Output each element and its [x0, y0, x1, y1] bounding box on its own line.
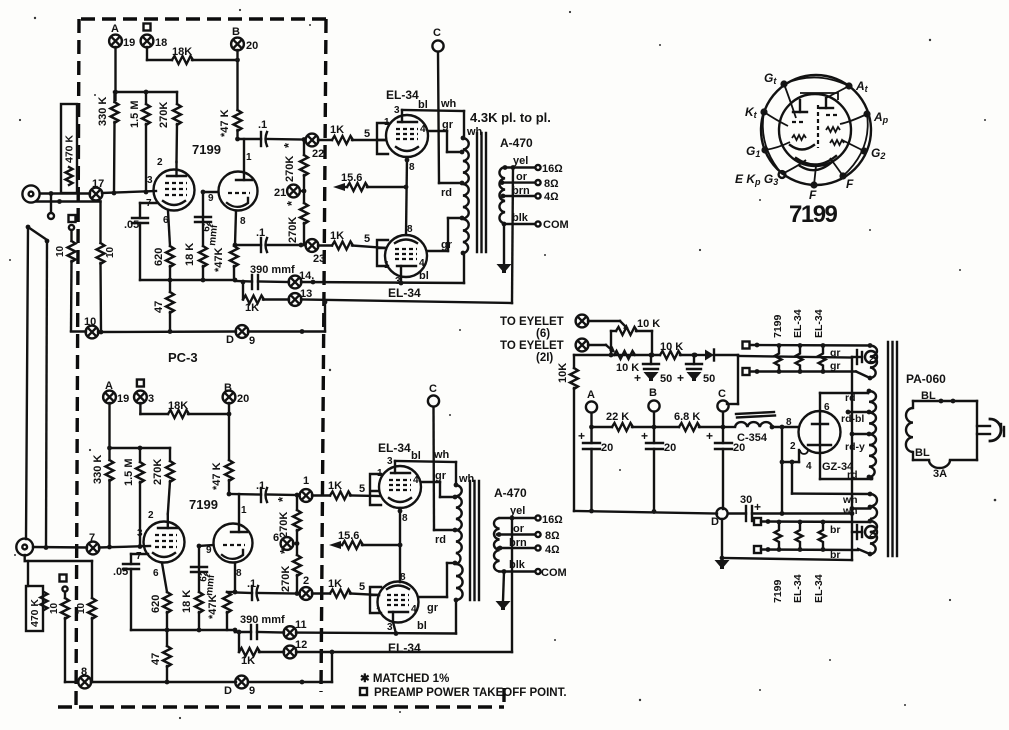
feedback wire 16ohm down bottom	[511, 518, 513, 652]
svg-text:12: 12	[295, 639, 307, 651]
svg-text:EL-34: EL-34	[792, 574, 804, 603]
resistor 1K upper grid stopper	[318, 124, 386, 144]
svg-text:17: 17	[92, 178, 104, 190]
resistor 18K divider bottom	[181, 544, 213, 630]
eyelet 18 with takeoff square	[141, 24, 168, 50]
screen wire gr to tap bottom	[421, 470, 455, 497]
svg-text:270K: 270K	[278, 512, 290, 538]
svg-text:6.8 K: 6.8 K	[674, 411, 700, 423]
svg-text:.05: .05	[113, 566, 128, 578]
svg-text:wh: wh	[458, 473, 475, 485]
svg-text:1K: 1K	[241, 655, 255, 667]
resistor *47K bottom	[211, 460, 233, 494]
tube 7199 pentode section bottom	[136, 510, 185, 579]
wire jack lower to 10 ohm (2nd)	[36, 200, 101, 202]
pilot lamp top	[852, 350, 877, 364]
label PREAMP POWER TAKEOFF POINT	[360, 687, 567, 699]
resistor 1K lower bottom	[312, 578, 379, 598]
winding 5V wh	[790, 460, 877, 519]
svg-text:1K: 1K	[328, 480, 342, 492]
eyelet 22	[302, 134, 325, 160]
transformer A-470 core bottom	[470, 481, 479, 600]
svg-text:2: 2	[157, 157, 163, 168]
svg-text:4Ω: 4Ω	[544, 191, 559, 203]
label TO EYELET (6)	[500, 316, 564, 340]
takeoff square top1	[743, 342, 871, 349]
tube 7199 triode section V1B	[208, 139, 258, 227]
resistor 10K series	[660, 341, 697, 359]
wire eyelet21 to pot2 wiper	[588, 345, 615, 352]
resistor 470K box bottom	[26, 561, 48, 631]
svg-text:330 K: 330 K	[97, 97, 109, 126]
svg-text:2: 2	[148, 510, 154, 521]
svg-text:PREAMP POWER TAKEOFF POINT.: PREAMP POWER TAKEOFF POINT.	[374, 687, 567, 699]
eyelet 8	[78, 666, 91, 688]
grid bracket upper EL34	[377, 123, 388, 154]
cap .1 upper coupling bottom	[227, 480, 297, 502]
svg-text:blk: blk	[512, 212, 529, 224]
gr labels top	[830, 347, 841, 372]
svg-text:yel: yel	[513, 155, 528, 167]
secondary tap yel 16 ohm bottom	[500, 505, 564, 526]
cathode bus wire bottom	[131, 628, 237, 633]
cap 390mmf bottom	[235, 614, 285, 639]
svg-text:7199: 7199	[189, 497, 218, 512]
svg-text:gr: gr	[427, 602, 439, 614]
cap 30uF	[728, 494, 854, 521]
svg-text:47: 47	[150, 653, 162, 665]
eyelet 2	[295, 575, 313, 600]
wire eyelet11 to EL34 plate line bottom	[296, 631, 456, 636]
dashed PC-3 board outline	[58, 19, 504, 707]
svg-text:9: 9	[206, 545, 212, 556]
svg-text:10: 10	[76, 602, 87, 614]
svg-text:50: 50	[660, 373, 672, 385]
wire eyelet10 to eyelet D9	[98, 329, 236, 334]
pin F bottom	[809, 181, 818, 202]
diode rectifier bias	[695, 350, 738, 361]
svg-text:20: 20	[664, 442, 676, 454]
svg-text:EL-34: EL-34	[813, 309, 825, 338]
svg-text:10 K: 10 K	[660, 341, 683, 353]
eyelet 11	[284, 619, 307, 639]
secondary tap or 8 ohm bottom	[497, 523, 561, 542]
resistor 270K bottom	[152, 448, 174, 514]
resistor 1.5M bottom	[123, 448, 144, 547]
plate wire bl lower to transformer	[399, 253, 464, 285]
internal pentode elements	[790, 100, 814, 150]
resistor 47	[153, 280, 174, 332]
PA-060 primary winding	[906, 408, 913, 452]
svg-text:330 K: 330 K	[92, 455, 104, 484]
cap .1 lower coupling	[235, 227, 304, 252]
svg-text:3: 3	[147, 175, 153, 186]
wire C to primary center tap rd	[439, 183, 462, 199]
svg-text:1.5 M: 1.5 M	[129, 100, 141, 128]
transformer A-470 primary winding bottom	[453, 483, 463, 603]
cap +50 second	[677, 353, 715, 385]
resistor 270K* upper	[281, 140, 308, 192]
potentiometer 10K upper	[611, 318, 660, 355]
internal connecting wires	[763, 77, 868, 185]
svg-text:+: +	[754, 500, 761, 514]
svg-text:3: 3	[137, 528, 143, 539]
resistor 1K lower grid stopper	[318, 230, 386, 250]
svg-text:3: 3	[387, 622, 393, 633]
svg-text:8: 8	[81, 666, 87, 678]
wire eyelet19 down	[114, 47, 116, 100]
svg-text:.1: .1	[247, 578, 256, 590]
eyelet 10	[84, 316, 98, 338]
svg-text:1: 1	[376, 606, 382, 617]
preamp takeoff square bottom + 10 ohm R	[49, 575, 78, 683]
wire eyelet8 to D9	[91, 681, 236, 683]
terminal C psu	[717, 388, 728, 427]
svg-text:bl: bl	[417, 620, 427, 632]
svg-text:15.6: 15.6	[341, 172, 362, 184]
tube 7199 pentode section V1A	[146, 157, 195, 226]
heater labels bottom	[772, 574, 825, 603]
svg-text:C-354: C-354	[737, 432, 768, 444]
svg-text:D: D	[226, 334, 234, 346]
wire eyelet19b down	[108, 403, 110, 460]
wire eyelet20b down	[228, 403, 230, 460]
svg-text:A: A	[111, 23, 119, 35]
svg-text:gr: gr	[435, 470, 447, 482]
svg-text:270K: 270K	[287, 217, 299, 243]
svg-text:+: +	[578, 429, 585, 443]
secondary tap yel 16 ohm	[505, 155, 563, 175]
ground secondary top	[497, 224, 512, 273]
cathode bus wire	[140, 278, 237, 283]
wire diode to terminal C	[727, 355, 738, 404]
resistor 1.5M	[129, 92, 150, 192]
winding 6.3V top	[856, 343, 877, 380]
resistor 620 bottom	[150, 563, 171, 630]
switch blade	[28, 227, 47, 240]
takeoff square bot2	[754, 546, 858, 553]
takeoff square top2	[743, 368, 857, 375]
ground bus to lamp vertical	[722, 357, 852, 560]
internal triode elements	[818, 98, 844, 148]
svg-text:gr: gr	[442, 119, 454, 131]
cap .1 top coupling	[258, 119, 304, 146]
svg-text:EL-34: EL-34	[813, 574, 825, 603]
svg-text:7: 7	[89, 532, 95, 544]
tube EL-34 upper V2	[384, 105, 428, 173]
resistor 10 ohm (2nd) bottom	[76, 561, 96, 682]
svg-text:TO EYELET: TO EYELET	[500, 316, 564, 328]
svg-text:bl: bl	[419, 270, 429, 282]
svg-text:5: 5	[359, 483, 365, 495]
svg-text:*47 K: *47 K	[211, 462, 223, 490]
resistor 1K feedback	[241, 280, 289, 314]
svg-text:4.3K pl. to pl.: 4.3K pl. to pl.	[470, 110, 551, 125]
grid bracket upper EL34 bottom	[370, 474, 381, 505]
socket outer circle	[761, 75, 871, 185]
transformer A-470 secondary winding	[499, 165, 507, 226]
grid bracket lower EL34 bottom	[370, 587, 381, 613]
svg-text:yel: yel	[510, 505, 525, 517]
screen wire gr lower bottom	[419, 563, 455, 614]
wire eyelet13 to feedback junction	[301, 300, 512, 305]
svg-text:.1: .1	[258, 119, 267, 131]
resistor 330K	[97, 92, 119, 193]
eyelet 23	[299, 239, 326, 265]
wire eyelet12 to feedback vertical bottom	[296, 650, 512, 655]
svg-text:6: 6	[153, 568, 159, 579]
svg-text:bl: bl	[411, 450, 421, 462]
grid bus wire bottom	[107, 446, 170, 451]
svg-text:gr: gr	[830, 360, 841, 372]
svg-text:11: 11	[295, 619, 307, 631]
plate node wire to cap .1 top	[235, 137, 261, 142]
svg-text:10K: 10K	[557, 363, 569, 383]
svg-text:BL: BL	[921, 390, 936, 402]
AC plug	[977, 401, 1004, 460]
svg-text:9: 9	[249, 685, 255, 697]
svg-text:7199: 7199	[772, 314, 784, 338]
tube 7199 triode section bottom	[206, 494, 253, 579]
resistor 18K top	[147, 46, 238, 64]
svg-text:8: 8	[400, 572, 406, 583]
svg-text:10 K: 10 K	[637, 318, 660, 330]
svg-text:18 K: 18 K	[181, 590, 193, 613]
svg-text:6: 6	[273, 532, 279, 544]
svg-text:7199: 7199	[789, 201, 838, 228]
terminal D	[711, 508, 728, 528]
svg-text:10: 10	[49, 602, 60, 614]
wire eyelet20 down to node B	[236, 50, 238, 110]
screen wire gr to tap	[428, 119, 462, 152]
secondary tap or 8 ohm	[502, 171, 559, 190]
svg-text:EL-34: EL-34	[792, 309, 804, 338]
resistor 18K divider	[184, 192, 207, 280]
resistor 10K bleeder vertical	[557, 355, 578, 511]
wire D9 to feedback corner bottom	[165, 652, 332, 684]
svg-text:23: 23	[313, 253, 325, 265]
pin G1	[746, 144, 769, 159]
svg-text:8: 8	[786, 417, 792, 428]
preamp takeoff square + 10 ohm R	[55, 215, 76, 331]
svg-text:br: br	[830, 524, 841, 536]
svg-text:8: 8	[407, 224, 413, 235]
resistor *47K plate load triode	[219, 109, 242, 139]
pin Ap	[863, 110, 888, 125]
screen wire gr lower to tap	[427, 218, 462, 251]
svg-text:20: 20	[237, 393, 249, 405]
cap .1 lower coupling bottom	[235, 578, 297, 600]
pin E Kp G3	[735, 171, 785, 187]
svg-text:4: 4	[420, 124, 426, 135]
ground wire D	[715, 519, 730, 569]
resistor 6.8K	[654, 411, 725, 431]
resistor 10 ohm (2nd)	[97, 202, 117, 332]
primary top wire BL with switch	[913, 390, 977, 408]
wire D9 to feedback corner	[248, 302, 325, 334]
pin Gt	[764, 71, 788, 88]
resistor 620 cathode	[153, 211, 174, 280]
wire triode grid	[201, 190, 218, 195]
svg-text:+: +	[641, 429, 648, 443]
takeoff square bot1	[754, 518, 870, 525]
grid bus wire	[114, 91, 177, 93]
resistor 270K plate load	[158, 92, 181, 162]
heater resistors bottom	[775, 520, 782, 552]
svg-text:1: 1	[246, 152, 252, 163]
svg-text:C: C	[433, 27, 441, 39]
svg-text:5: 5	[359, 581, 365, 593]
svg-text:620: 620	[150, 595, 162, 613]
svg-text:21: 21	[274, 187, 286, 199]
secondary tap blk COM bottom	[500, 559, 567, 579]
svg-text:F: F	[846, 177, 854, 191]
svg-text:.1: .1	[256, 480, 265, 492]
wire GZ34 pin2 to 30uF	[780, 425, 799, 516]
svg-text:10: 10	[55, 245, 66, 257]
svg-text:13: 13	[300, 288, 312, 300]
svg-text:3: 3	[148, 393, 154, 405]
cap .05 bottom	[113, 554, 148, 630]
eyelet 13	[289, 288, 313, 306]
svg-text:7199: 7199	[772, 579, 784, 603]
svg-text:EL-34: EL-34	[378, 441, 411, 455]
svg-text:mmf: mmf	[207, 223, 220, 246]
svg-text:1: 1	[241, 505, 247, 516]
svg-text:9: 9	[208, 193, 214, 204]
svg-text:270K: 270K	[284, 156, 296, 182]
resistor 18K bottom channel	[140, 400, 231, 418]
svg-text:PA-060: PA-060	[906, 372, 946, 386]
eyelet 21	[274, 185, 306, 199]
svg-text:3: 3	[387, 456, 393, 467]
svg-text:390 mmf: 390 mmf	[250, 264, 295, 276]
svg-text:A: A	[587, 389, 595, 401]
cap 20uF C	[706, 427, 745, 509]
svg-text:+: +	[706, 429, 713, 443]
svg-text:18K: 18K	[168, 400, 188, 412]
svg-text:*47 K: *47 K	[219, 109, 231, 137]
svg-text:15.6: 15.6	[338, 530, 359, 542]
svg-text:7: 7	[136, 551, 142, 562]
choke C-354	[723, 412, 798, 444]
svg-text:4Ω: 4Ω	[545, 544, 560, 556]
eyelet B20	[231, 26, 258, 52]
svg-text:5: 5	[364, 233, 370, 245]
svg-text:rd-y: rd-y	[845, 441, 865, 453]
eyelet 1	[295, 475, 313, 502]
svg-text:.05: .05	[124, 219, 139, 231]
svg-text:3A: 3A	[933, 468, 947, 480]
cap .05 cathode bypass	[124, 203, 157, 280]
svg-text:19: 19	[117, 393, 129, 405]
svg-text:16Ω: 16Ω	[542, 514, 563, 526]
resistor 15.6 feedback with arrow	[333, 172, 405, 191]
svg-text:*47K: *47K	[207, 594, 219, 619]
svg-text:wh: wh	[466, 126, 483, 138]
svg-text:18 K: 18 K	[184, 243, 196, 266]
svg-text:8Ω: 8Ω	[545, 530, 560, 542]
node dots on input line	[112, 191, 117, 196]
eyelet B20 bottom	[223, 382, 250, 405]
eyelet 17	[90, 178, 105, 200]
svg-text:wh: wh	[842, 505, 858, 517]
B+ bus wire	[589, 425, 612, 430]
terminal C bottom	[428, 383, 439, 530]
svg-text:EL-34: EL-34	[388, 641, 421, 655]
wire bias bus to pilot lamp	[738, 356, 852, 358]
pin G2	[860, 146, 885, 161]
cap 20uF B	[641, 427, 676, 511]
svg-text:rd: rd	[845, 392, 856, 404]
winding 6.3V bottom	[858, 519, 877, 557]
svg-text:+: +	[634, 371, 641, 385]
svg-text:18K: 18K	[172, 46, 192, 58]
svg-text:4: 4	[419, 258, 425, 269]
secondary tap brn 4 ohm	[503, 185, 559, 203]
svg-text:4: 4	[411, 604, 417, 615]
svg-text:22: 22	[312, 148, 324, 160]
svg-text:16Ω: 16Ω	[542, 163, 563, 175]
resistor 330K bottom	[92, 455, 114, 547]
eyelet 12	[284, 639, 308, 658]
svg-text:19: 19	[123, 37, 135, 49]
pin Kt	[745, 105, 768, 120]
svg-text:mmf: mmf	[204, 573, 217, 596]
svg-text:1K: 1K	[330, 230, 344, 242]
svg-text:✱ MATCHED 1%: ✱ MATCHED 1%	[360, 673, 449, 685]
cap 62mmf bottom	[191, 567, 217, 596]
resistor 47 bottom	[150, 630, 171, 682]
eyelet D9	[226, 325, 255, 347]
svg-text:1.5 M: 1.5 M	[123, 458, 135, 486]
svg-text:6: 6	[824, 402, 830, 413]
svg-text:3: 3	[394, 105, 400, 116]
svg-text:5: 5	[364, 128, 370, 140]
label TO EYELET (21)	[500, 340, 564, 364]
svg-text:50: 50	[703, 373, 715, 385]
input jack J2	[16, 539, 33, 556]
wire eyelet7 to pentode grid	[99, 544, 150, 549]
svg-text:20: 20	[246, 40, 258, 52]
secondary tap blk COM	[504, 212, 569, 231]
bias bus wire	[574, 353, 660, 358]
pin F right	[839, 172, 854, 191]
svg-text:PC-3: PC-3	[168, 350, 198, 365]
svg-text:8: 8	[236, 568, 242, 579]
svg-text:7199: 7199	[192, 142, 221, 157]
svg-text:1: 1	[303, 475, 309, 487]
svg-text:2: 2	[303, 575, 309, 587]
svg-text:rd: rd	[435, 534, 446, 546]
tube EL-34 upper bottom channel	[377, 456, 421, 524]
cap +50 first	[634, 355, 672, 385]
svg-text:C: C	[718, 388, 726, 400]
svg-text:1K: 1K	[328, 578, 342, 590]
HV winding	[841, 389, 876, 481]
svg-text:1K: 1K	[330, 124, 344, 136]
svg-text:8: 8	[409, 162, 415, 173]
svg-text:bl: bl	[418, 99, 428, 111]
eyelet to21	[576, 339, 589, 352]
tube EL-34 lower bottom channel	[376, 572, 419, 633]
svg-text:C: C	[429, 383, 437, 395]
wire switch to bottom jack wire (right)	[46, 241, 47, 547]
svg-text:390 mmf: 390 mmf	[240, 614, 285, 626]
resistor *47K cathode follower bottom	[207, 563, 237, 630]
svg-text:270K: 270K	[152, 459, 164, 485]
svg-text:470 K: 470 K	[64, 135, 76, 163]
